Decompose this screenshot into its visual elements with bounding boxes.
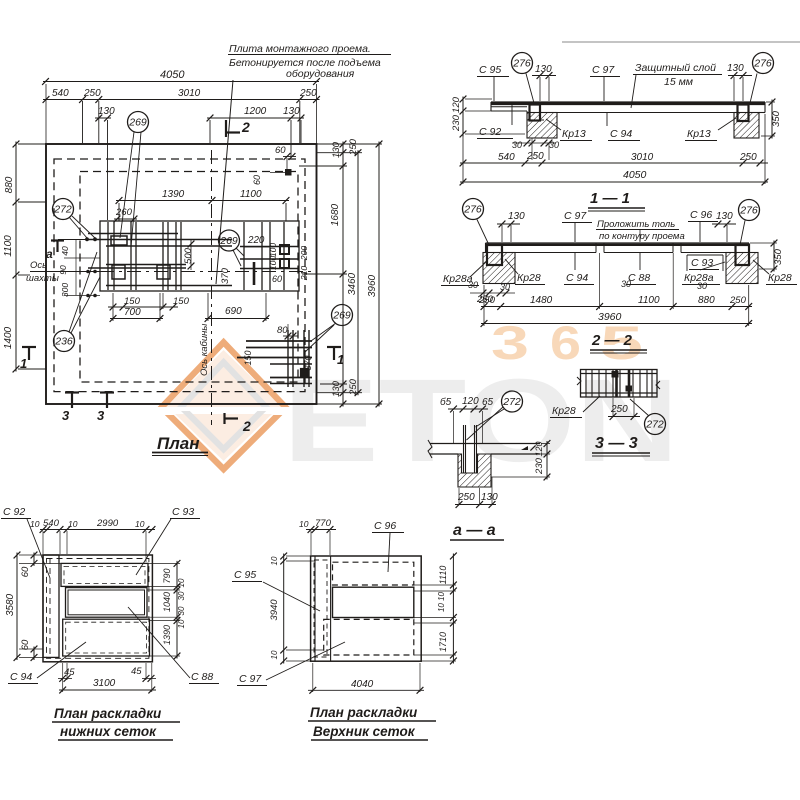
- svg-text:276: 276: [739, 205, 758, 217]
- svg-text:276: 276: [463, 204, 482, 216]
- right vertical dim 3460: [357, 150, 359, 395]
- svg-text:Защитный слой: Защитный слой: [635, 62, 716, 74]
- callout circle 269 top: [128, 112, 149, 133]
- svg-text:3: 3: [62, 408, 70, 423]
- svg-text:1400: 1400: [3, 326, 14, 349]
- svg-text:нижних сеток: нижних сеток: [60, 724, 157, 739]
- svg-text:1: 1: [337, 352, 344, 367]
- svg-text:1 — 1: 1 — 1: [590, 190, 630, 207]
- section cut a marker: [51, 239, 64, 241]
- callout circle 276 left of 1-1: [512, 53, 533, 74]
- rebar band rectangle in plan: [100, 221, 299, 291]
- svg-text:130: 130: [508, 211, 525, 222]
- svg-text:60: 60: [20, 639, 31, 650]
- dark anchor squares right block: [280, 245, 289, 254]
- detail a-a wall hatched: [458, 454, 491, 487]
- svg-text:4050: 4050: [160, 69, 185, 81]
- svg-text:60: 60: [252, 175, 262, 185]
- mesh band C96 top dashed: [333, 562, 414, 585]
- svg-text:350: 350: [771, 110, 782, 127]
- svg-text:120: 120: [451, 96, 462, 113]
- plan top extension lines: [45, 84, 47, 144]
- svg-text:120: 120: [462, 396, 479, 407]
- svg-text:а: а: [46, 247, 53, 261]
- svg-text:250: 250: [729, 295, 747, 306]
- svg-text:Кр28: Кр28: [552, 405, 576, 417]
- svg-text:10: 10: [135, 519, 145, 529]
- svg-text:210: 210: [299, 266, 309, 281]
- svg-text:2: 2: [242, 418, 251, 434]
- section cut 2 top: [225, 120, 227, 137]
- svg-text:C 96: C 96: [374, 520, 396, 532]
- dims 120 230 right a-a: [546, 441, 548, 480]
- svg-text:10 10: 10 10: [437, 591, 446, 612]
- section 1-1 slab outline: [491, 101, 765, 103]
- svg-text:C 97: C 97: [239, 673, 262, 685]
- axis os shakhty horizontal: [30, 271, 100, 273]
- mesh band bottom: [63, 619, 150, 656]
- callout circle 276 right of 2-2: [739, 200, 760, 221]
- break mark left a-a: [428, 440, 432, 458]
- svg-text:130: 130: [716, 211, 733, 222]
- svg-text:60: 60: [20, 566, 31, 577]
- svg-text:10: 10: [177, 578, 186, 587]
- svg-text:30: 30: [177, 606, 186, 615]
- svg-text:Ось: Ось: [30, 260, 47, 271]
- svg-text:250: 250: [83, 88, 101, 99]
- mesh plan lower outer rect C94: [43, 555, 152, 662]
- svg-text:690: 690: [225, 306, 242, 317]
- svg-text:65: 65: [482, 397, 494, 408]
- detail a-a rebar bars: [463, 425, 465, 473]
- svg-text:3010: 3010: [178, 88, 201, 99]
- mesh band C93 top: [61, 563, 148, 586]
- svg-text:700: 700: [124, 307, 141, 318]
- right extension lines: [316, 143, 382, 145]
- bottom right rebar detail in plan: [246, 340, 312, 342]
- svg-text:3940: 3940: [269, 599, 280, 621]
- rebar horizontal bars left block: [88, 233, 178, 235]
- svg-text:30: 30: [177, 591, 186, 600]
- svg-text:100: 100: [268, 243, 278, 257]
- callout circle 276 right of 1-1: [753, 53, 774, 74]
- svg-text:40: 40: [60, 246, 70, 256]
- svg-text:а — а: а — а: [453, 522, 496, 539]
- rebar vertical bars left block: [107, 222, 109, 290]
- section 2-2 right anchor: [736, 245, 750, 265]
- svg-text:1100: 1100: [638, 295, 660, 306]
- svg-text:2: 2: [241, 119, 250, 135]
- svg-text:300: 300: [60, 283, 70, 297]
- svg-text:130: 130: [727, 63, 744, 74]
- svg-text:269: 269: [128, 117, 147, 129]
- svg-text:10: 10: [270, 650, 279, 659]
- svg-text:C 92: C 92: [3, 506, 25, 518]
- svg-text:Кр28: Кр28: [768, 272, 792, 284]
- mesh band bottom dashed: [324, 619, 414, 655]
- plan outer wall rectangle: [46, 144, 317, 404]
- mesh plan upper left strip C95: [314, 556, 316, 661]
- svg-text:3960: 3960: [598, 311, 622, 323]
- svg-text:3: 3: [97, 408, 105, 423]
- svg-text:30: 30: [697, 281, 707, 291]
- svg-text:250: 250: [457, 492, 475, 503]
- svg-text:130: 130: [283, 106, 300, 117]
- svg-text:1200: 1200: [244, 106, 267, 117]
- left dims 60 3580 60: [33, 553, 35, 566]
- section 2-2 slab outline: [486, 242, 750, 244]
- svg-text:План раскладки: План раскладки: [310, 705, 418, 720]
- section 3-3 dark squares: [612, 372, 618, 378]
- svg-text:10: 10: [30, 519, 40, 529]
- svg-text:1390: 1390: [162, 189, 185, 200]
- svg-text:60: 60: [275, 145, 286, 156]
- svg-text:130: 130: [535, 64, 552, 75]
- svg-text:30: 30: [512, 140, 522, 150]
- callout circle 272 a-a: [502, 391, 523, 412]
- svg-text:370: 370: [303, 355, 313, 370]
- svg-text:30: 30: [621, 279, 631, 289]
- rebar horizontal bars right block: [240, 246, 298, 248]
- svg-text:Проложить толь: Проложить толь: [597, 219, 675, 230]
- svg-text:3010: 3010: [631, 152, 654, 163]
- mesh middle solid rect: [333, 587, 414, 617]
- svg-text:C 88: C 88: [628, 272, 650, 284]
- plan dashed opening rectangle B: [80, 172, 298, 383]
- svg-text:1480: 1480: [530, 295, 553, 306]
- rebar vertical bars right block: [243, 222, 245, 290]
- svg-text:250: 250: [739, 152, 757, 163]
- svg-text:Ось кабины: Ось кабины: [199, 324, 210, 376]
- callout circle 272 of 3-3: [645, 414, 666, 435]
- svg-text:Кр13: Кр13: [562, 128, 586, 140]
- svg-text:10: 10: [270, 556, 279, 565]
- svg-text:C 96: C 96: [690, 209, 712, 221]
- svg-text:880: 880: [4, 176, 15, 193]
- svg-text:220: 220: [247, 235, 265, 246]
- svg-text:3100: 3100: [93, 678, 116, 689]
- svg-text:236: 236: [54, 336, 73, 348]
- svg-text:Кр13: Кр13: [687, 128, 711, 140]
- svg-text:по контуру проема: по контуру проема: [599, 231, 685, 242]
- svg-text:100: 100: [268, 256, 278, 270]
- svg-text:4050: 4050: [623, 169, 647, 181]
- callout circle 236: [54, 331, 75, 352]
- svg-text:272: 272: [502, 396, 521, 408]
- svg-text:C 95: C 95: [479, 64, 501, 76]
- mesh plan upper outer rect: [311, 556, 422, 661]
- svg-text:200: 200: [299, 246, 309, 261]
- svg-text:500: 500: [183, 247, 194, 264]
- svg-text:150: 150: [124, 296, 141, 307]
- left vertical dims 120 230 of 1-1: [462, 97, 464, 137]
- section 2-2 left anchor: [487, 245, 502, 265]
- right vertical dim chain 130 1680: [342, 142, 344, 407]
- svg-text:45: 45: [131, 666, 142, 677]
- svg-text:540: 540: [52, 88, 69, 99]
- mesh band middle C88: [66, 588, 148, 618]
- svg-text:C 95: C 95: [234, 569, 256, 581]
- svg-text:2990: 2990: [96, 518, 119, 529]
- svg-text:269: 269: [332, 310, 351, 322]
- svg-text:3460: 3460: [347, 272, 358, 295]
- svg-text:230: 230: [451, 114, 462, 132]
- dim 350 right of 2-2: [773, 241, 775, 272]
- left vertical dim chain 880 1100 1400: [15, 142, 17, 372]
- svg-text:3960: 3960: [367, 274, 378, 297]
- svg-text:3580: 3580: [5, 593, 16, 616]
- callout circle 269 middle of band: [219, 230, 240, 251]
- section 1-1 right wall hatched: [734, 113, 759, 139]
- arrow mark on slab a-a: [521, 446, 528, 450]
- svg-text:130: 130: [331, 380, 342, 397]
- scan border line top right: [562, 41, 800, 43]
- svg-text:1: 1: [20, 356, 27, 371]
- svg-text:540: 540: [498, 152, 515, 163]
- svg-text:1040: 1040: [162, 592, 172, 612]
- svg-text:1100: 1100: [240, 189, 262, 200]
- svg-text:1110: 1110: [438, 566, 448, 585]
- svg-text:2 — 2: 2 — 2: [591, 332, 633, 349]
- svg-text:10: 10: [299, 519, 309, 529]
- svg-text:250: 250: [526, 151, 544, 162]
- svg-text:шахты: шахты: [26, 273, 59, 284]
- rebar mesh squares: [111, 236, 127, 245]
- svg-text:350: 350: [773, 248, 784, 265]
- section 2-2 left wall hatched: [483, 253, 515, 284]
- svg-text:C 93: C 93: [172, 506, 194, 518]
- svg-text:C 94: C 94: [10, 671, 32, 683]
- section 1-1 right anchor Kr13: [738, 105, 749, 122]
- svg-text:Кр28: Кр28: [517, 272, 541, 284]
- svg-text:C 97: C 97: [592, 64, 615, 76]
- svg-text:План раскладки: План раскладки: [54, 706, 162, 721]
- svg-text:276: 276: [753, 58, 772, 70]
- plan dashed opening rectangle A: [54, 159, 305, 392]
- watermark chevron logo: [158, 338, 290, 474]
- svg-text:60: 60: [272, 274, 282, 284]
- section 1-1 left anchor Kr13: [530, 105, 541, 121]
- dim 350 right of 1-1: [771, 100, 773, 139]
- svg-text:Плита монтажного проема.: Плита монтажного проема.: [229, 43, 371, 55]
- section cut 2 marker bottom: [223, 413, 225, 424]
- svg-text:План: План: [157, 434, 200, 453]
- svg-text:269: 269: [219, 235, 238, 247]
- callout circle 272 left: [53, 199, 74, 220]
- svg-text:15 мм: 15 мм: [664, 76, 693, 88]
- right dims 1110 10 10 1710 upper plan: [452, 554, 454, 588]
- svg-text:150: 150: [243, 350, 253, 365]
- svg-text:C 94: C 94: [566, 272, 588, 284]
- svg-text:1390: 1390: [162, 625, 172, 645]
- section 1-1 left wall hatched: [527, 113, 557, 139]
- svg-text:880: 880: [698, 295, 715, 306]
- svg-text:90: 90: [58, 265, 68, 275]
- svg-text:30: 30: [468, 280, 478, 290]
- svg-text:C 94: C 94: [610, 128, 632, 140]
- svg-text:80: 80: [277, 325, 288, 336]
- svg-text:1100: 1100: [3, 235, 14, 257]
- svg-text:130: 130: [98, 106, 115, 117]
- mesh plan lower left strip C92: [43, 555, 59, 657]
- svg-text:4040: 4040: [351, 679, 374, 690]
- detail a-a slab: [430, 443, 540, 445]
- axis os kabiny vertical: [211, 150, 213, 425]
- svg-text:1710: 1710: [438, 632, 448, 652]
- section 2-2 right wall hatched: [726, 253, 758, 284]
- svg-text:272: 272: [645, 419, 664, 431]
- leader from note to plan: [216, 80, 233, 284]
- svg-text:3 — 3: 3 — 3: [595, 435, 638, 452]
- section 3-3 mesh band: [581, 370, 658, 398]
- right dims 790 1040 1390 of lower mesh plan: [176, 561, 178, 589]
- svg-text:276: 276: [512, 58, 531, 70]
- section cut 3 markers bottom: [65, 391, 79, 393]
- right vertical dim 3960: [378, 142, 380, 407]
- section cut 1 marker right: [327, 346, 341, 348]
- svg-text:оборудования: оборудования: [286, 68, 355, 80]
- section cut 1 marker left: [22, 346, 36, 348]
- svg-text:C 92: C 92: [479, 126, 501, 138]
- svg-text:C 88: C 88: [191, 671, 213, 683]
- left dims 10 3940 10 upper plan: [283, 554, 285, 664]
- svg-text:C 97: C 97: [564, 210, 587, 222]
- svg-text:790: 790: [162, 568, 172, 583]
- svg-text:370: 370: [220, 267, 231, 284]
- svg-text:Верхник сеток: Верхник сеток: [313, 724, 416, 739]
- svg-text:1680: 1680: [330, 203, 341, 226]
- svg-text:230: 230: [534, 457, 545, 475]
- callout circle 269 bottom right: [332, 305, 353, 326]
- svg-text:272: 272: [53, 204, 72, 216]
- callout circle 276 left of 2-2: [463, 199, 484, 220]
- svg-text:б5: б5: [440, 396, 452, 408]
- section 3-3 end squiggles: [577, 377, 581, 385]
